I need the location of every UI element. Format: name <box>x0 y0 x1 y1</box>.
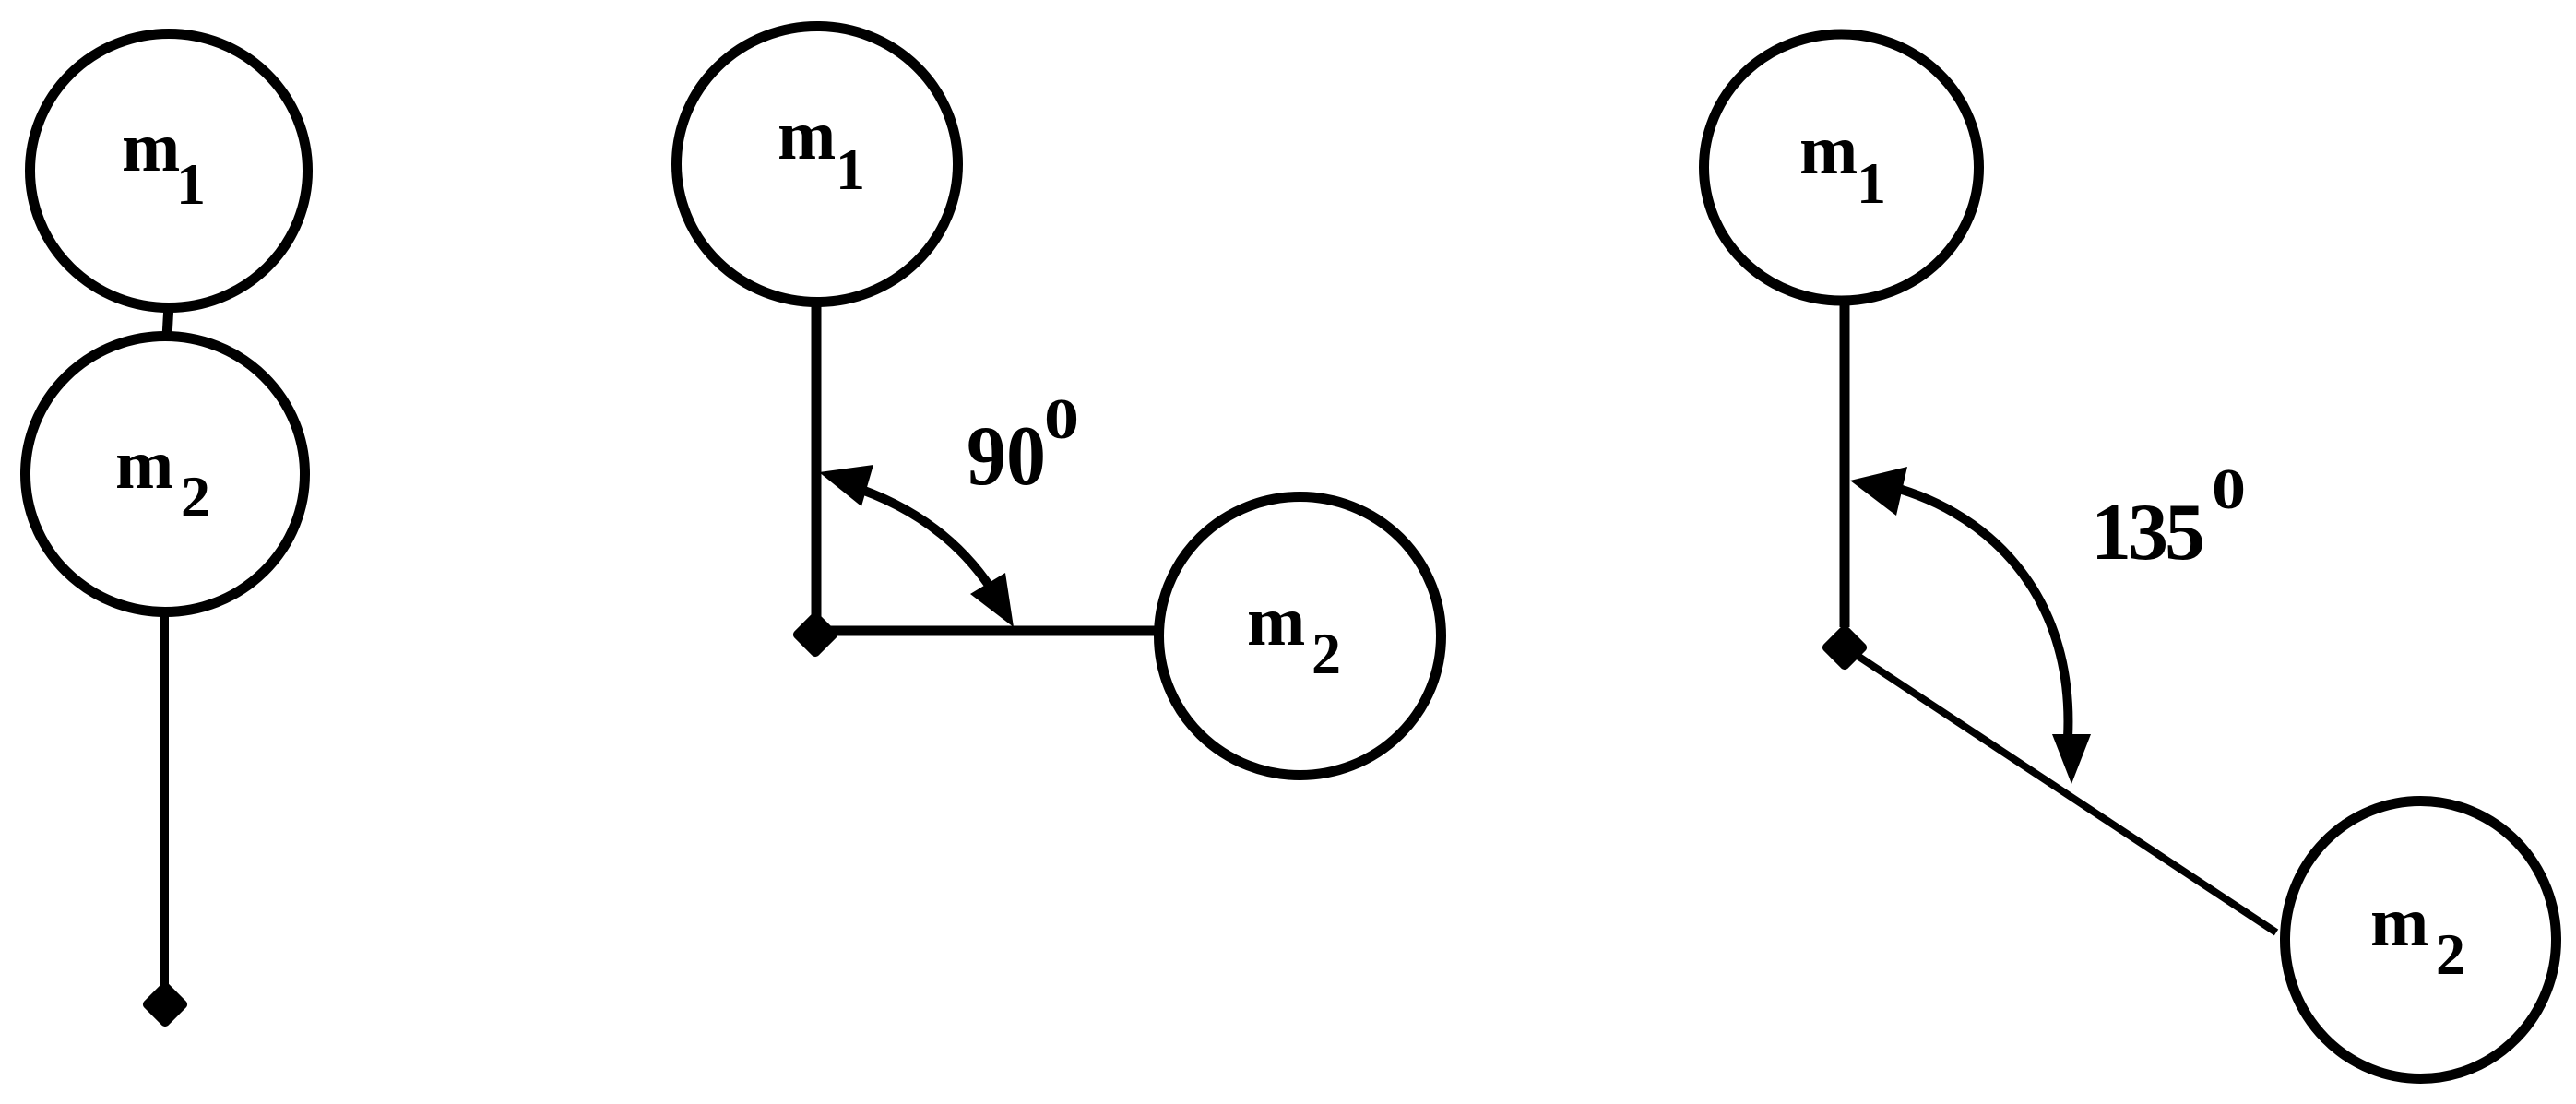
svg-text:m: m <box>115 426 173 504</box>
svg-text:0: 0 <box>1044 388 1079 451</box>
svg-text:m: m <box>1799 112 1858 189</box>
svg-text:m: m <box>122 109 180 186</box>
svg-text:m: m <box>1247 583 1305 660</box>
svg-text:1: 1 <box>176 151 206 217</box>
svg-text:0: 0 <box>2212 458 2246 521</box>
svg-text:1: 1 <box>1857 150 1886 216</box>
svg-text:2: 2 <box>1312 621 1341 686</box>
svg-text:1: 1 <box>836 137 865 202</box>
svg-text:135: 135 <box>2091 488 2202 577</box>
svg-text:m: m <box>2370 884 2428 961</box>
svg-text:m: m <box>778 97 836 174</box>
svg-text:90: 90 <box>967 409 1046 503</box>
svg-text:2: 2 <box>2436 921 2465 987</box>
svg-text:2: 2 <box>181 464 210 529</box>
